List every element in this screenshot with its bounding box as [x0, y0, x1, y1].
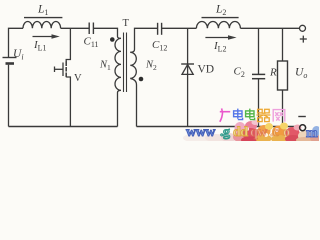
mosfet V branch wire	[66, 28, 70, 61]
inductor L1 coil	[23, 21, 61, 28]
node dot N2 bottom	[139, 77, 144, 82]
svg-text:V: V	[74, 73, 82, 84]
current arrow IL2	[205, 37, 228, 39]
wire L2 to output terminal	[240, 27, 299, 29]
capacitor C12 plates	[157, 23, 159, 35]
terminal - circle	[300, 125, 306, 131]
label minus	[298, 116, 306, 118]
capacitor C11 plates	[88, 23, 90, 35]
svg-text:o: o	[283, 125, 290, 140]
bottom rail primary	[9, 126, 118, 128]
terminal - circle redraw on top	[300, 125, 306, 131]
char wang (light pink)	[273, 110, 285, 122]
resistor R branch wire upper	[282, 28, 284, 61]
capacitor C2 plates	[252, 73, 265, 75]
battery Ui long plate	[3, 57, 17, 59]
wire top rail left from source to L1	[9, 28, 24, 57]
mosfet V gate lead	[55, 68, 64, 70]
mosfet V channel dashes	[65, 61, 67, 66]
diode VD branch wire	[187, 28, 189, 126]
bottom rail secondary	[137, 126, 300, 128]
char dian 2 (green)	[246, 109, 255, 120]
inductor L1 core bar	[24, 17, 62, 19]
wire N1 bottom to bottom rail	[118, 90, 122, 126]
diode VD cathode bar	[181, 63, 194, 65]
current arrow IL1	[33, 36, 53, 38]
watermark blobs	[183, 120, 320, 144]
wire C11 to transformer N1 top	[94, 28, 121, 38]
wire N2 top to C12	[130, 28, 157, 52]
watermark url text	[186, 125, 318, 141]
wire C12 to L2 (VD tap at 187.6)	[162, 27, 197, 29]
char dian 1 (blue)	[234, 109, 243, 120]
char qi (orange)	[256, 109, 270, 121]
wire N2 bottom to bottom rail	[130, 79, 136, 127]
svg-text:.g: .g	[220, 125, 230, 140]
terminal + circle	[300, 25, 306, 31]
inductor L2 coil	[196, 21, 240, 28]
svg-text:T: T	[123, 18, 130, 29]
transformer core	[123, 33, 125, 93]
capacitor C2 branch wire lower	[258, 79, 260, 127]
svg-text:dd: dd	[233, 125, 248, 140]
node dot N1 top	[110, 37, 115, 42]
svg-text:m: m	[306, 126, 318, 141]
mosfet V gate plate	[62, 63, 64, 77]
capacitor C2 branch wire upper	[258, 28, 260, 74]
wire L1 to C11 (MOSFET tap at x=70.4)	[61, 27, 89, 29]
mosfet V source wire to bottom rail	[66, 77, 70, 127]
resistor R box	[278, 61, 288, 90]
wire battery to bottom rail	[8, 65, 10, 127]
label plus	[300, 36, 307, 43]
inductor L2 core bar	[202, 17, 239, 19]
transformer N1 winding	[115, 38, 121, 90]
transformer N2 winding	[130, 52, 136, 78]
resistor R branch wire lower	[282, 90, 284, 127]
diode VD triangle	[182, 65, 193, 75]
watermark chinese text (drawn glyphs)	[220, 108, 285, 121]
svg-text:www: www	[186, 125, 216, 140]
svg-text:.c: .c	[270, 125, 279, 140]
svg-text:qw: qw	[250, 125, 268, 140]
svg-text:R: R	[269, 67, 277, 79]
char guang (pink)	[220, 108, 230, 121]
svg-text:VD: VD	[198, 64, 215, 76]
battery Ui short plate	[6, 62, 15, 65]
